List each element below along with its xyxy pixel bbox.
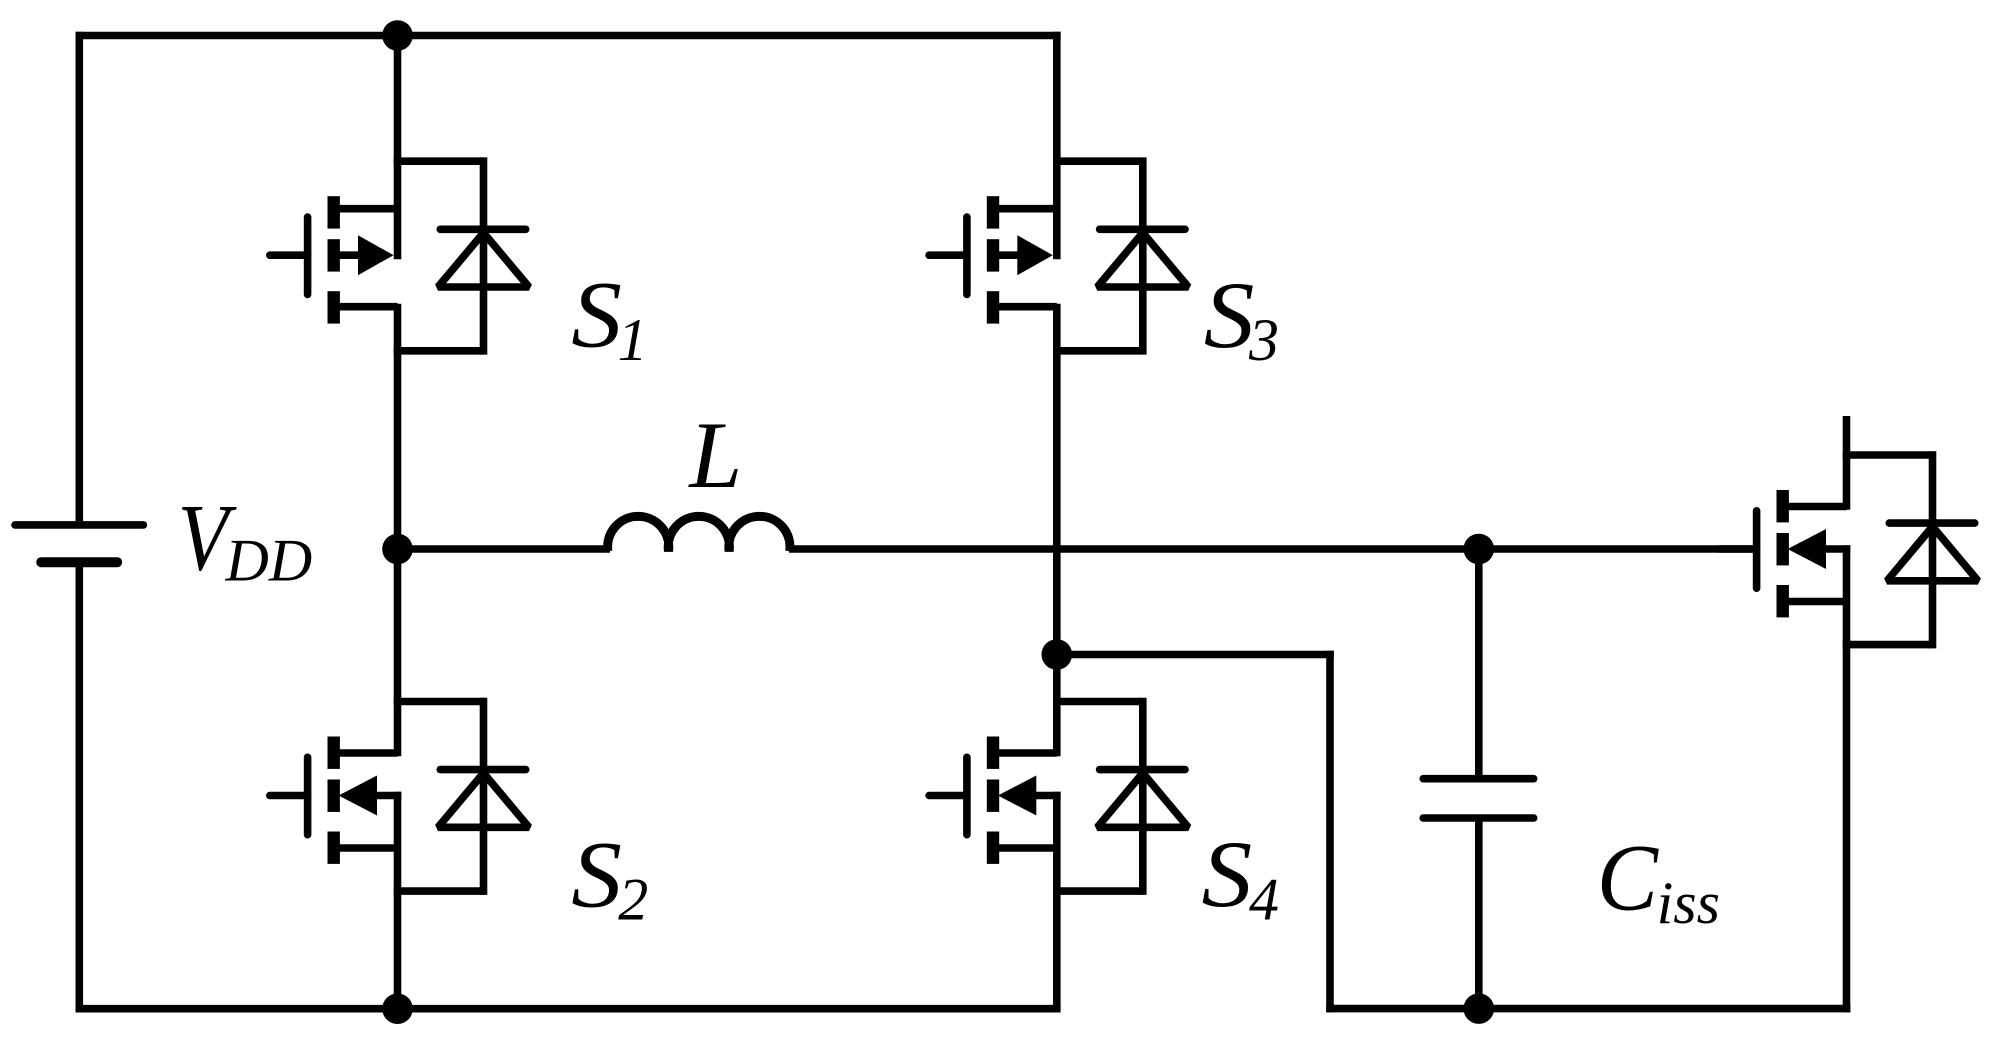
wire right bus middle segment (1053, 304, 1061, 757)
wire DUT source vertical (1843, 545, 1851, 1012)
svg-text:1: 1 (618, 307, 648, 373)
battery VDD top plate (15, 521, 143, 529)
svg-text:2: 2 (618, 867, 648, 933)
body diode of S4 (1053, 698, 1188, 895)
svg-text:S: S (1202, 821, 1253, 927)
wire bottom rail (76, 1005, 1061, 1013)
body diode of S3 (1053, 157, 1188, 354)
body diode of DUT (1843, 451, 1978, 648)
junction node C_iss top (1464, 534, 1495, 565)
transistor S1 (MOSFET) (270, 196, 398, 323)
wire left branch lower (76, 566, 84, 1012)
junction node bottom-left bus (382, 993, 413, 1024)
transistor S3 (MOSFET) (929, 196, 1057, 323)
junction node S4 gate branch (1042, 639, 1073, 670)
wire C_iss lower lead (1475, 822, 1483, 1009)
wire gate branch horizontal (1057, 651, 1334, 659)
wire mid rail right of inductor (789, 545, 1757, 553)
svg-text:L: L (687, 402, 742, 508)
transistor S2 (MOSFET) (270, 737, 402, 864)
wire top rail (76, 32, 1061, 40)
wire right bus lower segment (1053, 792, 1061, 1009)
wire left bus lower segment (394, 792, 402, 1009)
battery VDD bottom plate (41, 557, 117, 567)
svg-text:3: 3 (1248, 307, 1279, 373)
body diode of S2 (394, 698, 529, 895)
svg-text:S: S (571, 262, 622, 368)
capacitor C_iss bottom plate (1423, 814, 1534, 822)
junction node mid-left bus (382, 534, 413, 565)
svg-text:iss: iss (1657, 870, 1720, 936)
junction node top-left bus (382, 20, 413, 51)
svg-text:S: S (571, 821, 622, 927)
body diode of S1 (394, 157, 529, 354)
wire mid rail left of inductor (398, 545, 611, 553)
junction node C_iss bottom (1464, 993, 1495, 1024)
svg-text:C: C (1597, 824, 1660, 930)
wire DUT drain stub (1843, 416, 1851, 510)
svg-text:DD: DD (225, 528, 313, 594)
wire right bus upper segment (1053, 32, 1061, 260)
transistor S4 (MOSFET) (929, 737, 1061, 864)
wire gate branch vertical (1326, 651, 1334, 1013)
wire C_iss upper lead (1475, 549, 1483, 775)
inductor L winding (608, 516, 790, 551)
wire left branch upper (76, 32, 84, 522)
capacitor C_iss top plate (1423, 775, 1534, 783)
wire gate loop bottom rail (1326, 1005, 1850, 1013)
svg-text:S: S (1204, 262, 1255, 368)
svg-text:4: 4 (1249, 867, 1279, 933)
wire left bus middle segment (394, 304, 402, 757)
wire left bus upper segment (394, 32, 402, 260)
transistor DUT (MOSFET under test) (1719, 490, 1851, 617)
